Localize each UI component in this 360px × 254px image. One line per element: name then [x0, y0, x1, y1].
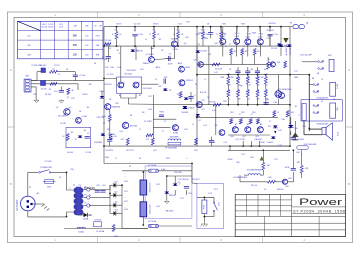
wire drv drops — [242, 141, 260, 147]
svg-text:C2 47U: C2 47U — [134, 24, 141, 26]
svg-text:Q17: Q17 — [201, 100, 205, 102]
wire ac top — [28, 172, 38, 196]
svg-text:Q14: Q14 — [119, 131, 123, 133]
svg-text:R12: R12 — [178, 24, 181, 26]
wire vert 208 — [208, 46, 210, 105]
wire rail r3 — [197, 116, 278, 118]
svg-text:C13: C13 — [223, 142, 226, 144]
svg-text:C61: C61 — [102, 185, 105, 187]
wire spk2 — [304, 134, 322, 136]
thermistor Q50 — [282, 179, 287, 184]
svg-text:4K7: 4K7 — [267, 165, 270, 167]
svg-text:Q10: Q10 — [214, 43, 218, 45]
diode D14 — [183, 107, 195, 110]
svg-text:D27: D27 — [180, 198, 183, 200]
resistor R22 — [230, 49, 237, 65]
wire ac bottom — [28, 211, 74, 217]
fuse F7 — [83, 202, 96, 207]
svg-text:5026A: 5026A — [83, 218, 89, 221]
svg-text:N64 10u: N64 10u — [199, 33, 206, 35]
resistor R19 — [213, 103, 221, 106]
svg-text:2N5401: 2N5401 — [171, 39, 179, 41]
svg-text:R19: R19 — [223, 101, 226, 103]
svg-text:C945: C945 — [259, 34, 264, 36]
wire relay loop — [197, 197, 214, 223]
svg-text:K50 BAT/WRBW: K50 BAT/WRBW — [247, 169, 261, 172]
svg-text:D17: D17 — [294, 71, 297, 73]
capacitor C60 — [95, 191, 100, 193]
svg-text:4.7: 4.7 — [239, 114, 242, 116]
resistor R27 — [121, 138, 129, 146]
svg-text:C2240: C2240 — [172, 49, 178, 51]
svg-text:5W: 5W — [237, 91, 240, 93]
svg-text:C12: C12 — [266, 38, 269, 40]
svg-text:1K2: 1K2 — [153, 150, 156, 152]
svg-text:R1 1K: R1 1K — [54, 65, 60, 67]
svg-text:C7: C7 — [164, 121, 166, 123]
svg-text:D20: D20 — [114, 181, 117, 183]
svg-text:2SD/2SB: 2SD/2SB — [290, 47, 292, 55]
svg-text:D23: D23 — [114, 210, 117, 212]
svg-text:R29: R29 — [166, 158, 169, 160]
svg-text:SW1: SW1 — [219, 202, 221, 206]
diode D7 — [196, 114, 200, 116]
diode D22 — [110, 201, 122, 207]
svg-text:SW: SW — [70, 169, 73, 171]
svg-text:RY12: RY12 — [204, 205, 206, 209]
diode D18 — [288, 117, 293, 135]
svg-text:CN1: CN1 — [25, 76, 30, 78]
svg-text:5W: 5W — [238, 85, 241, 87]
wire q5 chain — [109, 122, 111, 136]
ground out gnd — [260, 156, 265, 160]
svg-text:C2 3W 50V: C2 3W 50V — [31, 65, 41, 67]
svg-text:D10 QXL-BP: D10 QXL-BP — [300, 55, 312, 57]
svg-text:R3: R3 — [49, 89, 51, 91]
svg-text:A970: A970 — [156, 66, 160, 69]
svg-text:A992: A992 — [186, 66, 190, 69]
transistor Q9 — [193, 60, 203, 68]
resistor R28 — [146, 138, 154, 145]
wire ac chassis — [33, 203, 45, 205]
svg-text:F0: F0 — [89, 215, 91, 217]
svg-text:R7: R7 — [117, 50, 119, 52]
transistor Q18 — [76, 117, 82, 123]
svg-text:R8: R8 — [153, 30, 155, 32]
fuse F4 supply connector — [293, 25, 304, 29]
transistor Q1 — [118, 81, 126, 88]
svg-text:R16: R16 — [201, 30, 204, 32]
svg-text:N5: N5 — [209, 54, 211, 56]
diode D24 — [78, 213, 92, 221]
svg-text:Q22: Q22 — [255, 136, 259, 138]
svg-text:1W: 1W — [142, 112, 145, 114]
wire led down — [166, 176, 168, 200]
inductor L50 — [247, 169, 261, 176]
svg-text:R3 1K: R3 1K — [116, 24, 122, 26]
svg-text:47U/50V: 47U/50V — [268, 23, 276, 25]
svg-text:5026: 5026 — [47, 187, 51, 189]
svg-text:100P: 100P — [168, 64, 173, 66]
svg-text:5026A: 5026A — [78, 231, 84, 234]
svg-text:C9 OB: C9 OB — [85, 152, 91, 154]
diode D20 — [110, 181, 122, 187]
svg-text:2SA970B: 2SA970B — [112, 106, 121, 109]
resistor R33 — [256, 74, 260, 88]
svg-text:280: 280 — [85, 26, 88, 28]
ferrite bead FB2 — [41, 81, 47, 91]
ground relay gnd — [201, 222, 208, 226]
svg-text:R20: R20 — [222, 24, 225, 26]
svg-text:1N4148B: 1N4148B — [94, 142, 103, 144]
diode D4 — [75, 136, 82, 142]
diode D6 — [181, 106, 188, 114]
transistor Q12 — [245, 36, 251, 44]
svg-text:P1: P1 — [73, 185, 75, 187]
wire rail bottom amp — [104, 145, 290, 147]
wire cap links2 — [142, 195, 144, 202]
fuse F2 — [122, 169, 192, 172]
svg-text:F0: F0 — [89, 205, 91, 207]
transistor Q8 vas — [179, 80, 194, 86]
capacitor C8 — [235, 67, 240, 79]
svg-text:R9: R9 — [159, 39, 161, 41]
resistor R52 — [239, 119, 242, 125]
svg-text:Q3: Q3 — [56, 107, 59, 109]
transistor Q2 — [133, 81, 141, 88]
svg-text:R55 10: R55 10 — [251, 185, 257, 187]
svg-text:0.47: 0.47 — [247, 85, 251, 87]
wire input bot — [31, 84, 78, 90]
wire relay0 drop — [267, 57, 269, 62]
svg-text:D1B 1N4148W: D1B 1N4148W — [304, 144, 317, 146]
svg-text:Q6: Q6 — [184, 43, 187, 45]
svg-text:2SA970: 2SA970 — [143, 62, 150, 65]
svg-text:C 47u: C 47u — [138, 34, 143, 36]
svg-text:D13: D13 — [278, 145, 281, 147]
transistor Q15 — [172, 125, 178, 135]
resistor R26b — [286, 111, 294, 118]
svg-text:CE1A-BLRM: CE1A-BLRM — [316, 123, 328, 126]
svg-text:77K): 77K) — [96, 36, 100, 38]
resistor R16 — [198, 26, 209, 46]
svg-text:1N4148: 1N4148 — [188, 108, 194, 110]
svg-text:C 47u: C 47u — [273, 34, 278, 36]
svg-text:5W: 5W — [247, 91, 250, 93]
resistor R30 — [227, 74, 231, 88]
svg-text:D50: D50 — [285, 186, 288, 188]
svg-text:4K7: 4K7 — [176, 30, 179, 32]
transistor Q7 — [148, 53, 154, 62]
relay control box — [197, 183, 224, 228]
svg-text:10: 10 — [277, 112, 279, 114]
svg-text:J5: J5 — [321, 101, 323, 103]
svg-text:B1: B1 — [119, 95, 121, 97]
transistor Q8b — [179, 66, 190, 72]
wire out net2 — [240, 181, 268, 183]
svg-text:150: 150 — [27, 36, 30, 38]
svg-text:2SC2240S: 2SC2240S — [142, 88, 152, 90]
svg-text:5W: 5W — [238, 99, 241, 101]
svg-text:D14: D14 — [184, 129, 187, 131]
wire out net1 — [229, 146, 231, 150]
svg-text:D15: D15 — [268, 126, 271, 128]
relay K0 body — [329, 59, 334, 71]
wire input third — [31, 87, 36, 100]
svg-text:0.47: 0.47 — [227, 85, 231, 87]
resistor R18 — [212, 63, 222, 71]
svg-text:R12: R12 — [115, 103, 118, 105]
wire bridge join — [109, 185, 111, 213]
svg-text:5W: 5W — [257, 85, 260, 87]
svg-text:2SC: 2SC — [105, 67, 109, 69]
switch SW1 — [39, 167, 52, 173]
svg-text:0.22: 0.22 — [212, 110, 216, 112]
fuse F8 — [148, 224, 192, 227]
resistor R5 — [104, 40, 112, 46]
svg-text:2SC2240: 2SC2240 — [124, 74, 132, 76]
svg-text:Q21: Q21 — [242, 136, 246, 138]
svg-text:R2 220: R2 220 — [45, 94, 51, 96]
svg-text:TRE2: TRE2 — [159, 112, 164, 114]
resistor R2 — [50, 82, 57, 85]
transistor Q6 — [171, 39, 179, 47]
ferrite bead FB1 — [40, 65, 47, 73]
chassis ground earth — [42, 205, 50, 211]
zener ZD1 — [271, 44, 281, 51]
wire in link — [36, 72, 38, 81]
resistor R55 — [268, 180, 276, 183]
wire led net — [167, 175, 192, 177]
svg-text:1M: 1M — [264, 69, 267, 71]
svg-text:C60: C60 — [96, 185, 99, 187]
fuse F6 — [83, 194, 96, 199]
svg-text:F0: F0 — [84, 202, 86, 204]
wire sec bus2 — [96, 197, 110, 199]
resistor R51 — [230, 119, 233, 125]
svg-text:AC INPUT: AC INPUT — [16, 199, 19, 211]
svg-text:C3: C3 — [67, 97, 69, 99]
capacitor C6 — [164, 77, 168, 84]
svg-text:+B 50V/BTL: +B 50V/BTL — [286, 46, 288, 56]
svg-text:C1 10U: C1 10U — [79, 75, 86, 77]
svg-text:4K7: 4K7 — [185, 37, 188, 39]
resistor R6 — [102, 110, 111, 122]
svg-text:10000U/50V: 10000U/50V — [150, 204, 152, 215]
wire spk1 — [309, 128, 322, 130]
transformer T1 — [74, 187, 84, 216]
svg-text:5W: 5W — [215, 125, 218, 127]
wire out spine — [308, 74, 310, 131]
resistor R20 — [216, 26, 227, 46]
svg-text:C8: C8 — [207, 97, 209, 99]
capacitor C12 — [267, 26, 278, 46]
resistor R43 — [256, 90, 259, 105]
svg-text:5W: 5W — [265, 99, 268, 101]
svg-text:1K2: 1K2 — [148, 96, 151, 98]
svg-text:1N4148: 1N4148 — [277, 189, 284, 191]
svg-text:C1 10U: C1 10U — [107, 74, 114, 76]
svg-text:47U/25V: 47U/25V — [95, 219, 103, 221]
wire ps rail top — [104, 163, 192, 165]
diode D27 — [165, 192, 176, 198]
wire relay0 link — [302, 61, 318, 63]
svg-text:LM 62: LM 62 — [48, 26, 53, 28]
svg-text:ST P200H_300HB_150B: ST P200H_300HB_150B — [293, 209, 345, 213]
capacitor C9 — [245, 67, 250, 79]
svg-text:1K2: 1K2 — [146, 139, 149, 141]
wire rail r1 — [197, 74, 290, 76]
svg-text:C52: C52 — [274, 159, 277, 161]
inductor L2 — [77, 227, 85, 233]
resistor R32 — [246, 74, 250, 88]
relay zone box — [301, 100, 342, 121]
svg-text:J5: J5 — [321, 79, 323, 81]
resistor R29 — [195, 138, 198, 145]
svg-text:5W: 5W — [261, 77, 264, 79]
svg-text:Q17: Q17 — [201, 109, 205, 111]
svg-text:2SC: 2SC — [140, 69, 144, 71]
resistor R11 — [109, 134, 116, 140]
transistor Q17 — [196, 102, 202, 108]
ground spk gnd — [292, 133, 298, 140]
capacitor C11 — [264, 100, 270, 105]
fuse F3 — [297, 146, 309, 150]
resistor R4 — [67, 88, 75, 95]
svg-text:4.7: 4.7 — [248, 99, 251, 101]
transistor Q11 — [234, 36, 240, 44]
diode D10 — [196, 51, 207, 53]
svg-text:D22: D22 — [114, 201, 117, 203]
svg-text:2SC2240S: 2SC2240S — [126, 70, 136, 72]
resistor R44 — [264, 90, 267, 105]
relay RY1 contact — [213, 197, 220, 216]
svg-text:D20: D20 — [124, 181, 127, 183]
wire pair tail — [127, 98, 129, 104]
svg-text:5W: 5W — [231, 77, 234, 79]
svg-text:C50: C50 — [294, 128, 297, 130]
svg-text:280UH/8R: 280UH/8R — [170, 137, 179, 139]
svg-text:C26 UNL-BL: C26 UNL-BL — [178, 179, 189, 181]
svg-text:D7: D7 — [199, 120, 201, 122]
svg-text:D21: D21 — [124, 191, 127, 193]
wire rail r2 — [197, 104, 290, 106]
svg-text:152: 152 — [85, 45, 88, 47]
svg-text:4K7B: 4K7B — [285, 167, 290, 169]
resistor R54 — [257, 119, 260, 125]
svg-text:C9: C9 — [87, 133, 89, 135]
speaker SP1 — [322, 123, 340, 140]
svg-text:F0: F0 — [84, 194, 86, 196]
transistor Q19 — [270, 62, 280, 67]
resistor R9 — [62, 134, 69, 141]
svg-text:D50: D50 — [288, 178, 291, 180]
resistor R53 — [249, 119, 252, 125]
svg-text:10K: 10K — [73, 52, 78, 56]
capacitor C10 — [255, 67, 260, 79]
capacitor C13 — [107, 134, 112, 146]
svg-text:R14: R14 — [186, 22, 189, 24]
diode D23 — [110, 210, 122, 216]
svg-text:POWER-SW: POWER-SW — [40, 167, 52, 169]
svg-text:CE1A-BLRM: CE1A-BLRM — [316, 97, 328, 100]
svg-text:C7: C7 — [162, 131, 164, 133]
relay K1 contacts — [313, 84, 319, 94]
svg-text:D22: D22 — [124, 201, 127, 203]
diode D3 — [163, 89, 172, 93]
svg-text:CO2: CO2 — [208, 193, 212, 195]
svg-text:R50: R50 — [236, 162, 239, 164]
transistor Q5 — [105, 104, 121, 110]
capacitor C17 — [209, 137, 214, 147]
svg-text:C2: C2 — [58, 74, 60, 76]
svg-text:PX4148: PX4148 — [200, 51, 206, 53]
svg-text:R9: R9 — [71, 132, 73, 134]
svg-text:1W: 1W — [107, 129, 110, 131]
svg-text:D5: D5 — [177, 94, 179, 96]
transistor Q21 — [245, 127, 251, 133]
svg-text:F2: F2 — [129, 166, 131, 168]
svg-text:5W: 5W — [257, 99, 260, 101]
capacitor C5 — [168, 54, 173, 66]
svg-text:F0: F0 — [89, 195, 91, 197]
resistor R21 — [284, 61, 287, 68]
transistor Q10 — [220, 36, 226, 44]
wire bridge out — [121, 185, 123, 228]
relay RY1 coil — [202, 200, 207, 214]
wire top supply rail — [104, 26, 293, 28]
svg-text:65: 65 — [95, 26, 97, 28]
wire spk3 — [303, 121, 305, 135]
svg-text:4.7: 4.7 — [268, 59, 271, 61]
feedback box — [66, 127, 91, 147]
svg-text:D26 UNL: D26 UNL — [174, 172, 182, 174]
svg-text:0.5W: 0.5W — [103, 59, 108, 61]
svg-text:Q7: Q7 — [146, 54, 149, 56]
resistor R24 — [253, 49, 260, 65]
wire right spine — [289, 27, 291, 146]
svg-text:R A.1MO: R A.1MO — [254, 138, 262, 141]
fuse F1 — [43, 180, 56, 189]
svg-text:C A.MO: C A.MO — [267, 141, 274, 144]
svg-text:R10 150: R10 150 — [104, 84, 111, 86]
svg-text:GL: GL — [75, 139, 77, 141]
svg-text:F1 5026: F1 5026 — [45, 161, 52, 163]
wire interconnects — [31, 27, 302, 229]
capacitor C7 — [159, 112, 164, 117]
resistor R60 — [112, 225, 115, 232]
svg-text:C4: C4 — [198, 44, 200, 46]
wire ps vert r — [191, 164, 193, 184]
wire input top — [31, 80, 104, 82]
svg-text:R51: R51 — [230, 112, 233, 114]
svg-text:RY BOX: RY BOX — [192, 179, 200, 181]
diode D21 — [110, 191, 122, 197]
transistor Q13 — [257, 36, 263, 44]
svg-text:5W: 5W — [227, 91, 230, 93]
svg-text:Q20: Q20 — [230, 136, 234, 138]
svg-text:F2 T6.3A: F2 T6.3A — [148, 164, 156, 167]
relay K2 contacts — [313, 105, 319, 115]
svg-text:ZD 15V: ZD 15V — [271, 48, 278, 50]
svg-text:R8 1K: R8 1K — [153, 24, 159, 26]
svg-text:F1: F1 — [59, 177, 61, 179]
relay K1 body — [330, 82, 339, 96]
resistor R41 — [237, 90, 240, 105]
input pair box U1 — [117, 77, 142, 94]
svg-text:1N5408: 1N5408 — [169, 195, 176, 197]
svg-text:C13 47N: C13 47N — [105, 150, 113, 152]
